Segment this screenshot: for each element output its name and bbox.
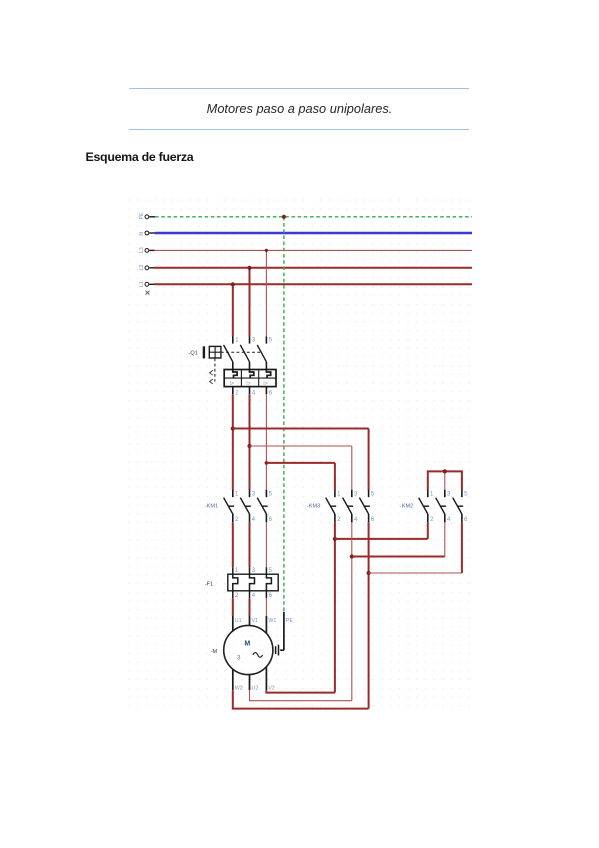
svg-text:L1: L1	[139, 281, 145, 287]
svg-text:L2: L2	[139, 265, 145, 271]
svg-text:L3: L3	[139, 247, 145, 253]
svg-text:V1: V1	[252, 618, 259, 624]
svg-text:I>: I>	[230, 381, 234, 387]
svg-text:N: N	[139, 232, 145, 236]
svg-text:-KM1: -KM1	[205, 504, 218, 510]
svg-text:-F1: -F1	[205, 581, 213, 587]
svg-text:-KM2: -KM2	[400, 504, 413, 510]
svg-text:-KM3: -KM3	[307, 504, 320, 510]
svg-text:-M: -M	[211, 649, 218, 655]
svg-text:3: 3	[237, 654, 241, 661]
svg-text:PE: PE	[286, 618, 294, 624]
svg-text:-Q1: -Q1	[189, 351, 198, 357]
svg-text:W1: W1	[268, 618, 276, 624]
svg-text:PE: PE	[139, 212, 145, 219]
svg-text:U2: U2	[252, 685, 259, 691]
svg-text:I>: I>	[263, 381, 267, 387]
svg-text:W2: W2	[235, 685, 243, 691]
svg-text:I>: I>	[246, 381, 250, 387]
svg-text:U1: U1	[235, 618, 242, 624]
svg-text:V2: V2	[268, 685, 275, 691]
svg-text:M: M	[244, 641, 250, 648]
